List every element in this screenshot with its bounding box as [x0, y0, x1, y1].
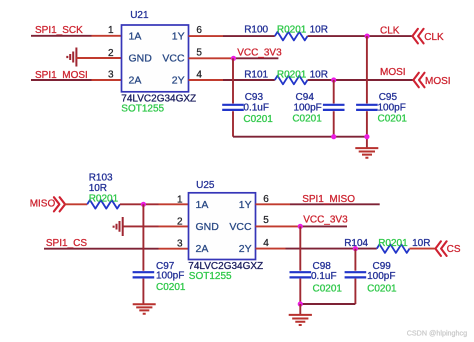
svg-text:SOT1255: SOT1255: [189, 271, 232, 282]
capacitor C95: [356, 105, 378, 110]
resistor R103: [87, 200, 120, 209]
svg-text:C0201: C0201: [243, 114, 273, 125]
svg-text:SPI1_SCK: SPI1_SCK: [35, 25, 83, 36]
svg-text:CSDN @hlpinghcg: CSDN @hlpinghcg: [407, 328, 467, 337]
wire C93 to ground rail: [232, 111, 234, 137]
svg-text:10R: 10R: [412, 238, 430, 249]
off-page connector CS: [435, 241, 446, 256]
svg-text:R0201: R0201: [89, 193, 119, 204]
wire R100 to CLK port: [308, 35, 412, 37]
wire C99 to ground rail: [354, 279, 356, 304]
capacitor C98: [290, 272, 312, 277]
resistor R101: [275, 76, 308, 85]
svg-text:C0201: C0201: [313, 283, 343, 294]
ground stem (bottom): [299, 304, 301, 315]
svg-text:1: 1: [108, 25, 114, 36]
svg-text:4: 4: [196, 70, 202, 81]
wire C95 to ground rail: [366, 111, 368, 148]
svg-text:C0201: C0201: [156, 282, 186, 293]
ground rail (top): [233, 136, 367, 138]
svg-text:5: 5: [263, 215, 269, 226]
wire U25 pin 6 SPI1_MISO: [256, 203, 291, 205]
svg-text:CLK: CLK: [424, 32, 444, 43]
svg-text:R104: R104: [344, 238, 368, 249]
wire VCC node to C98: [299, 226, 301, 270]
svg-text:VCC: VCC: [162, 53, 185, 65]
svg-text:3: 3: [108, 70, 114, 81]
svg-text:MOSI: MOSI: [380, 67, 406, 78]
wire SPI1_CS to U25 pin 3: [44, 248, 159, 250]
junction MOSI / C94: [331, 77, 336, 82]
svg-text:100pF: 100pF: [156, 271, 184, 282]
wire MISO to R103: [65, 203, 88, 205]
svg-text:R0201: R0201: [277, 25, 307, 36]
ground (sideways) at U21 pin 2: [67, 48, 76, 67]
svg-text:C0201: C0201: [292, 114, 322, 125]
capacitor C94: [323, 105, 345, 110]
svg-text:1: 1: [177, 194, 183, 205]
svg-text:10R: 10R: [310, 70, 328, 81]
wire ground to U21 pin 2: [76, 57, 121, 59]
svg-text:SPI1_CS: SPI1_CS: [46, 238, 87, 249]
wire U21 pin 5 (VCC_3V3): [189, 57, 234, 59]
ground rail (bottom): [300, 303, 355, 305]
svg-text:MOSI: MOSI: [425, 76, 451, 87]
svg-text:10R: 10R: [310, 25, 328, 36]
wire C98 to ground rail: [299, 279, 301, 304]
wire SPI1_SCK to U21 pin 1: [31, 35, 92, 37]
svg-text:CLK: CLK: [380, 26, 400, 37]
ground (sideways) at U25 pin 2: [114, 217, 123, 236]
svg-text:1A: 1A: [129, 31, 142, 43]
wire ground to U25 pin 2: [123, 225, 159, 227]
off-page connector CLK: [412, 29, 423, 44]
junction VCC_3V3 / C98: [298, 224, 303, 229]
svg-text:1A: 1A: [196, 199, 209, 211]
wire C97 to ground: [142, 279, 144, 305]
wire MOSI node to C94: [333, 80, 335, 104]
svg-text:R100: R100: [244, 25, 268, 36]
svg-text:3: 3: [177, 238, 183, 249]
svg-text:100pF: 100pF: [378, 102, 406, 113]
svg-text:R101: R101: [244, 70, 268, 81]
wire CS node to C99: [354, 249, 356, 271]
junction C94 / rail: [331, 134, 336, 139]
junction CS / C99: [353, 246, 358, 251]
svg-text:2Y: 2Y: [239, 243, 252, 255]
wire CLK node to C95: [366, 36, 368, 103]
wire U21 pin 6 to R100: [189, 35, 224, 37]
capacitor C99: [345, 272, 367, 277]
junction MISO / C97: [141, 202, 146, 207]
svg-text:CS: CS: [447, 244, 461, 255]
svg-text:100pF: 100pF: [367, 271, 395, 282]
svg-text:MISO: MISO: [30, 198, 56, 209]
capacitor C93: [222, 105, 244, 110]
buffer U25 body: [189, 193, 256, 260]
svg-text:4: 4: [263, 238, 269, 249]
svg-text:GND: GND: [129, 53, 153, 65]
buffer U21 body: [122, 25, 189, 92]
svg-text:2: 2: [108, 48, 114, 59]
svg-text:2A: 2A: [196, 243, 209, 255]
svg-text:5: 5: [196, 47, 202, 58]
svg-text:2Y: 2Y: [172, 75, 185, 87]
svg-text:R0201: R0201: [277, 70, 307, 81]
resistor R100: [275, 32, 308, 41]
wire R104 to CS port: [410, 248, 435, 250]
wire U25 pin 4 to R104: [256, 248, 286, 250]
wire R101 to MOSI port: [308, 79, 413, 81]
capacitor C97: [133, 272, 155, 277]
svg-text:2A: 2A: [129, 75, 142, 87]
svg-text:2: 2: [177, 216, 183, 227]
wire VCC node to C93: [232, 58, 234, 103]
junction C95 / rail: [364, 134, 369, 139]
svg-text:SOT1255: SOT1255: [121, 104, 164, 115]
svg-text:VCC_3V3: VCC_3V3: [303, 215, 348, 226]
svg-text:6: 6: [263, 194, 269, 205]
ground symbol (top right): [355, 148, 378, 158]
svg-text:0.1uF: 0.1uF: [311, 271, 337, 282]
svg-text:0.1uF: 0.1uF: [243, 103, 269, 114]
wire SPI1_MOSI to U21 pin 3: [31, 79, 92, 81]
svg-text:U21: U21: [130, 10, 149, 21]
svg-text:U25: U25: [196, 180, 215, 191]
wire R103 to U25 pin 1: [120, 203, 159, 205]
svg-text:C0201: C0201: [367, 283, 397, 294]
junction C98 / rail / ground: [298, 301, 303, 306]
svg-text:VCC_3V3: VCC_3V3: [237, 48, 282, 59]
wire U21 pin 4 to R101: [189, 79, 224, 81]
wire C94 to ground rail: [333, 111, 335, 137]
svg-text:C0201: C0201: [378, 114, 408, 125]
ground symbol (under C97): [133, 304, 156, 314]
svg-text:100pF: 100pF: [293, 102, 321, 113]
svg-text:VCC: VCC: [229, 221, 252, 233]
svg-text:GND: GND: [196, 221, 220, 233]
off-page connector MOSI: [413, 73, 424, 88]
wire U25 pin 5 (VCC_3V3): [256, 225, 301, 227]
svg-text:1Y: 1Y: [172, 31, 185, 43]
junction CLK / C95: [365, 34, 370, 39]
svg-text:SPI1_MISO: SPI1_MISO: [302, 194, 355, 205]
svg-text:C93: C93: [245, 92, 264, 103]
ground symbol (bottom): [289, 315, 312, 325]
svg-text:R0201: R0201: [378, 238, 408, 249]
svg-text:6: 6: [196, 25, 202, 36]
resistor R104: [377, 244, 410, 253]
wire MISO node to C97: [142, 204, 144, 270]
junction VCC_3V3 / C93: [231, 56, 236, 61]
svg-text:1Y: 1Y: [239, 199, 252, 211]
